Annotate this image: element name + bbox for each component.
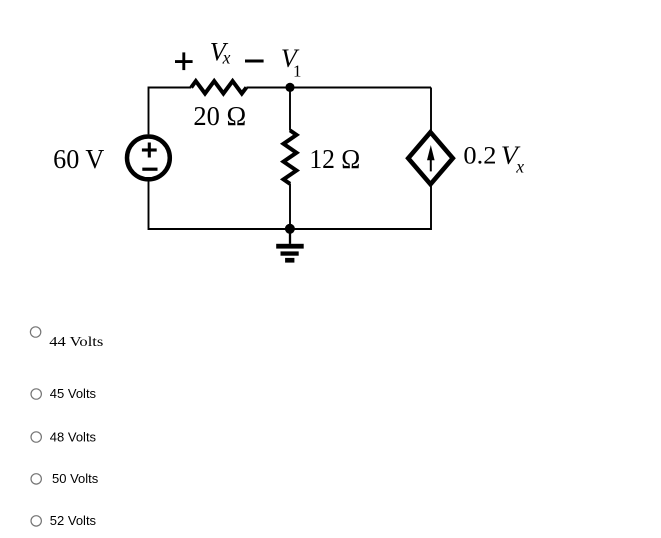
svg-text:48 Volts: 48 Volts — [50, 429, 97, 444]
svg-text:45 Volts: 45 Volts — [50, 386, 97, 401]
svg-text:12 Ω: 12 Ω — [309, 144, 360, 174]
svg-text:x: x — [515, 157, 524, 177]
svg-text:44 Volts: 44 Volts — [49, 335, 103, 350]
svg-text:1: 1 — [293, 61, 302, 80]
svg-text:x: x — [222, 48, 231, 68]
svg-text:60 V: 60 V — [53, 144, 105, 174]
svg-text:0.2: 0.2 — [463, 143, 496, 170]
svg-text:20 Ω: 20 Ω — [193, 101, 246, 131]
svg-text:52 Volts: 52 Volts — [50, 513, 97, 528]
svg-text:50 Volts: 50 Volts — [52, 471, 99, 486]
